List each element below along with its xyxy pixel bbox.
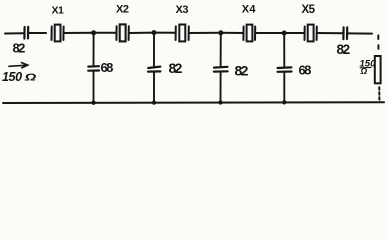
junction C5 at rail [218,100,222,104]
capacitor C2 82 (output series) [343,27,347,39]
node A junction [91,30,96,35]
capacitor C6 68 (shunt) [278,67,292,71]
crystal X1 [52,25,64,42]
capacitor C5 82 (shunt) [214,67,228,72]
wire C1 to X1 [28,32,46,34]
svg-text:X5: X5 [302,4,316,16]
source impedance label 150 ohm [2,70,37,84]
svg-text:Ω: Ω [360,66,368,76]
wire node A to X2 [94,32,116,34]
reference label X1 [52,5,65,17]
svg-text:Ω: Ω [24,72,37,83]
wire C3 to ground rail [93,71,95,103]
svg-text:68: 68 [299,63,312,78]
load resistor R2 150 ohm (box) [375,56,381,83]
svg-text:X2: X2 [116,4,129,16]
reference label X5 [302,4,316,16]
wire C6 to ground rail [283,72,285,102]
load resistor value label 150 ohm [360,59,377,77]
svg-text:X3: X3 [176,4,189,16]
wire node C to X4 [221,32,243,34]
wire shunt branch node B down [153,33,155,68]
value label 68 (C3) [101,60,114,75]
wire X4 to node D [256,32,284,34]
wire shunt branch node C down [220,33,222,67]
svg-text:82: 82 [13,41,26,56]
junction C6 at rail [282,100,286,104]
value label 82 (C4) [169,60,183,76]
node D junction [282,31,287,36]
wire C4 to ground rail [153,72,155,103]
svg-text:82: 82 [235,63,249,79]
svg-text:150: 150 [2,70,22,84]
capacitor C4 82 (shunt) [148,67,160,72]
wire node B to X3 [154,32,175,34]
wire input segment [5,32,24,34]
value label 82 (C2) [337,42,350,57]
wire node D to X5 [284,32,304,34]
capacitor C3 68 (shunt) [88,66,99,71]
svg-text:X4: X4 [242,3,257,15]
value label 68 (C6) [299,63,312,78]
wire shunt branch node D down [283,33,285,67]
wire X3 to node C [190,32,221,34]
crystal X2 [116,24,128,41]
node C junction [218,30,223,35]
crystal X4 [243,25,255,42]
wire X5 to C2 [318,32,344,34]
svg-text:68: 68 [101,60,114,75]
dashed wire load resistor to ground rail [378,87,380,101]
wire X1 to node A [65,32,94,34]
reference label X4 [242,3,257,15]
crystal X3 [176,25,189,42]
reference label X3 [176,4,189,16]
ground rail wire [3,101,384,104]
junction C4 at rail [152,101,156,105]
svg-text:82: 82 [169,60,183,76]
dashed wire output to load resistor [377,35,379,54]
wire C5 to ground rail [220,72,222,103]
value label 82 (C5) [235,63,249,79]
wire shunt branch node A down [93,33,95,67]
node B junction [152,30,157,35]
capacitor C1 82 (input series) [24,27,28,39]
wire C2 to output [348,32,373,34]
svg-text:X1: X1 [52,5,65,17]
crystal X5 [305,25,317,42]
junction C3 at rail [91,101,95,105]
svg-text:82: 82 [337,42,350,57]
source arrow [9,63,28,68]
reference label X2 [116,4,129,16]
wire X2 to node B [130,32,155,34]
value label 82 (C1) [13,41,26,56]
